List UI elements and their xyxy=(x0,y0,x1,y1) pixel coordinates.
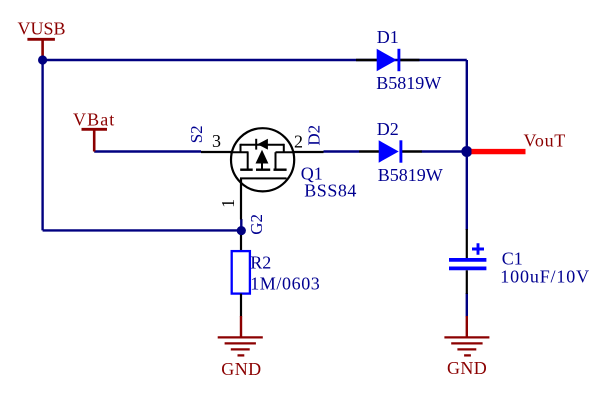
Q1 source horizontal entry xyxy=(230,151,249,153)
Q1 drain horizontal entry xyxy=(276,151,296,153)
transistor Q1 body circle xyxy=(231,128,294,191)
ground GND right bar3 xyxy=(457,348,476,350)
Q1 left contact bar xyxy=(240,168,253,170)
transistor Q1 pin 1 lead (gate) xyxy=(240,178,242,219)
junction dot node G2 xyxy=(237,226,246,235)
svg-text:VBat: VBat xyxy=(73,110,115,130)
ground GND right stem xyxy=(466,316,468,337)
Q1 internal left drop from top bar xyxy=(240,144,242,153)
resistor R2 bottom pin lead xyxy=(240,294,242,317)
power symbol VBat bar xyxy=(82,128,108,131)
ground GND left bar4 xyxy=(238,354,245,356)
wire Q1 pin2 to D2 anode xyxy=(324,150,360,152)
svg-text:1: 1 xyxy=(218,199,238,208)
power symbol VUSB bar xyxy=(27,38,55,41)
Q1 internal right drop from top bar xyxy=(283,144,285,153)
ground GND left bar1 xyxy=(218,336,263,338)
transistor Q1 pin 3 lead (source) xyxy=(201,151,232,153)
resistor R2 body xyxy=(232,251,250,294)
wire bottom horizontal to gate net xyxy=(43,229,242,231)
svg-text:G2: G2 xyxy=(247,214,266,235)
power symbol VBat stem xyxy=(93,129,96,151)
diode D2 anode pin lead xyxy=(359,150,380,152)
ground GND right bar1 xyxy=(444,336,489,338)
wire C1 to GND xyxy=(466,293,468,317)
diode D1 cathode bar xyxy=(397,49,400,71)
svg-text:D1: D1 xyxy=(377,27,399,47)
ground GND left bar2 xyxy=(225,342,256,344)
svg-text:R2: R2 xyxy=(250,253,271,273)
Q1 left channel bar xyxy=(247,152,249,169)
ground GND left bar3 xyxy=(231,348,250,350)
Q1 substrate stem xyxy=(261,164,263,170)
resistor R2 top pin lead xyxy=(240,235,242,251)
transistor Q1 pin 2 lead (drain) xyxy=(294,151,324,153)
svg-text:S2: S2 xyxy=(187,125,206,143)
svg-text:B5819W: B5819W xyxy=(378,165,443,185)
wire VUSB left vertical xyxy=(41,60,43,230)
capacitor C1 top plate xyxy=(449,258,486,262)
capacitor C1 plus sign xyxy=(472,243,484,255)
Q1 gate bar xyxy=(240,177,287,179)
ground GND right bar4 xyxy=(464,354,471,356)
diode D2 cathode bar xyxy=(399,140,402,162)
svg-text:3: 3 xyxy=(212,131,221,151)
diode D1 triangle xyxy=(377,49,397,71)
wire VBat to Q1 pin3 xyxy=(94,150,201,152)
junction dot node VUSB xyxy=(38,55,47,64)
svg-text:100uF/10V: 100uF/10V xyxy=(500,267,590,287)
svg-text:D2: D2 xyxy=(305,125,324,146)
Q1 internal top bar (body-diode path) xyxy=(241,144,284,146)
junction dot node VouT xyxy=(461,146,472,157)
capacitor C1 top pin lead xyxy=(466,229,468,258)
diode D2 triangle xyxy=(379,140,399,162)
wire right vertical D1 cathode down to C1 xyxy=(466,60,468,230)
svg-text:VouT: VouT xyxy=(524,131,566,151)
Q1 right contact bar xyxy=(274,168,287,170)
ground GND right bar2 xyxy=(451,342,482,344)
diode D1 anode pin lead xyxy=(356,59,378,61)
wire gate pin to junction xyxy=(240,219,242,230)
svg-text:2: 2 xyxy=(294,132,303,152)
capacitor C1 bottom plate xyxy=(449,267,486,271)
svg-text:D2: D2 xyxy=(377,119,399,139)
power symbol VUSB stem xyxy=(41,39,44,57)
capacitor C1 bottom pin lead xyxy=(466,270,468,294)
diode D1 cathode pin lead xyxy=(400,59,419,61)
Q1 body diode triangle xyxy=(257,139,268,150)
svg-text:GND: GND xyxy=(447,358,487,378)
svg-text:VUSB: VUSB xyxy=(18,19,66,39)
VouT red net stub xyxy=(472,149,526,154)
svg-text:B5819W: B5819W xyxy=(376,73,441,93)
svg-text:GND: GND xyxy=(221,359,261,379)
Q1 middle contact bar xyxy=(256,168,270,170)
Q1 body diode cathode bar xyxy=(255,139,257,150)
Q1 right channel bar xyxy=(275,152,277,169)
wire VUSB top rail horizontal xyxy=(43,59,467,61)
ground GND left stem xyxy=(240,316,242,337)
svg-text:1M/0603: 1M/0603 xyxy=(250,274,320,294)
wire D2 cathode to VouT node xyxy=(422,150,467,152)
diode D2 cathode pin lead xyxy=(402,150,422,152)
svg-text:BSS84: BSS84 xyxy=(304,181,357,201)
svg-text:C1: C1 xyxy=(502,249,523,269)
Q1 substrate arrow xyxy=(256,150,269,164)
